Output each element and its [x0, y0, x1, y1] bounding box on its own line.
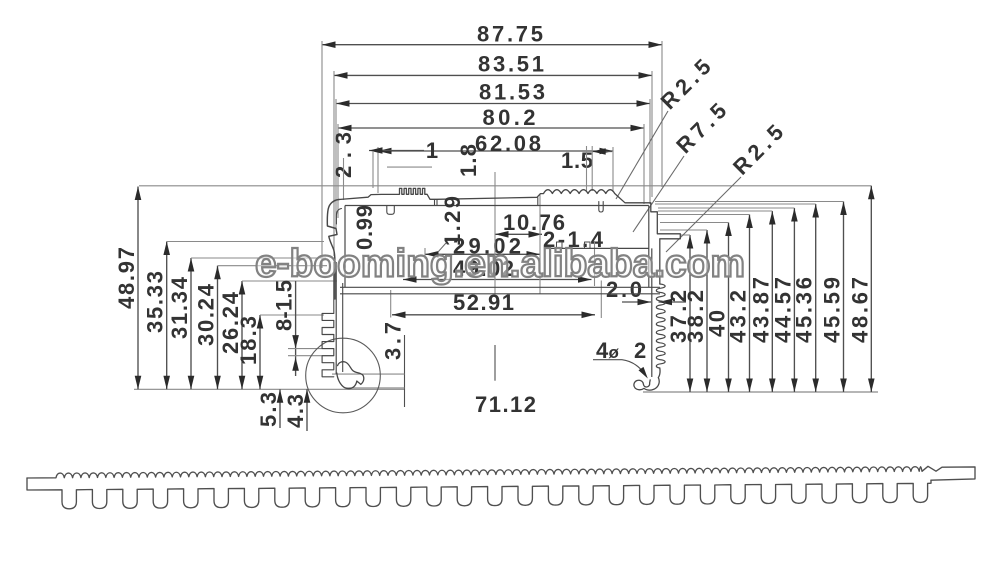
svg-text:31.34: 31.34	[167, 276, 192, 339]
svg-text:45.36: 45.36	[792, 277, 817, 343]
svg-text:35.33: 35.33	[143, 271, 168, 333]
svg-text:18.3: 18.3	[236, 316, 261, 365]
svg-text:10.76: 10.76	[503, 210, 565, 235]
svg-text:1.8: 1.8	[456, 144, 481, 177]
svg-text:3.7: 3.7	[381, 322, 406, 360]
svg-text:5.3: 5.3	[256, 392, 281, 427]
svg-text:80.2: 80.2	[483, 105, 536, 130]
svg-text:1: 1	[426, 138, 438, 163]
svg-text:48.97: 48.97	[114, 247, 139, 309]
svg-text:1.5: 1.5	[561, 148, 593, 173]
svg-text:81.53: 81.53	[479, 80, 545, 105]
svg-text:71.12: 71.12	[475, 392, 536, 417]
svg-text:2: 2	[634, 338, 646, 363]
svg-text:8-1.5: 8-1.5	[272, 280, 297, 331]
svg-text:ø: ø	[609, 343, 620, 362]
svg-text:83.51: 83.51	[478, 52, 544, 77]
svg-text:62.08: 62.08	[475, 131, 541, 156]
svg-text:30.24: 30.24	[194, 283, 219, 346]
svg-text:48.67: 48.67	[847, 277, 872, 343]
svg-text:43.2: 43.2	[726, 290, 751, 343]
svg-text:45.59: 45.59	[820, 277, 845, 343]
svg-text:87.75: 87.75	[477, 22, 543, 47]
svg-text:e-booming.en.alibaba.com: e-booming.en.alibaba.com	[255, 243, 745, 286]
svg-text:1.29: 1.29	[440, 196, 465, 246]
svg-text:4.3: 4.3	[283, 394, 308, 428]
